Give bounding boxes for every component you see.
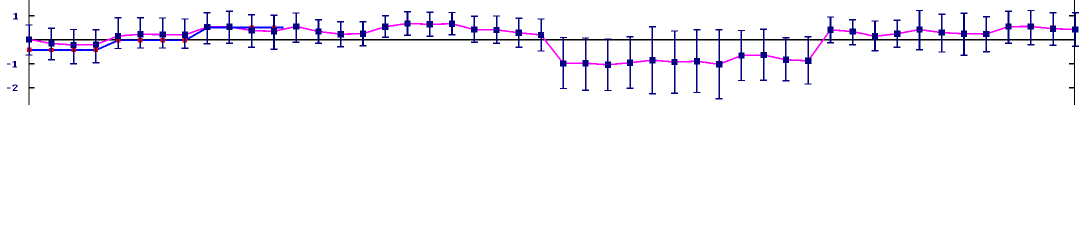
fit point 4 (red) (116, 38, 120, 42)
errorbar point 33 (760, 29, 767, 81)
errorbar point 13 (315, 19, 322, 44)
label -1 (7, 61, 17, 68)
errorbar point 28 (649, 26, 656, 95)
errorbar point 19 (449, 12, 456, 36)
errorbar point 47 (1072, 12, 1079, 47)
errorbar point 10 (248, 14, 255, 48)
fit point 7 (red) (183, 38, 187, 42)
errorbar point 14 (337, 21, 344, 47)
fit point 0 (red) (27, 48, 31, 52)
errorbar point 8 (204, 12, 211, 44)
x-axis zero line (28, 39, 1075, 40)
errorbar point 43 (983, 16, 990, 52)
errorbar point 39 (894, 20, 901, 49)
label -2 (7, 84, 17, 91)
errorbar point 27 (627, 36, 634, 89)
errorbar point 25 (582, 37, 589, 91)
errorbar point 34 (782, 37, 789, 81)
errorbar point 20 (471, 16, 478, 43)
errorbar point 5 (137, 17, 144, 49)
fit point 6 (red) (160, 38, 164, 42)
errorbar point 37 (849, 19, 856, 46)
errorbar point 35 (805, 36, 812, 85)
fit point 1 (red) (49, 48, 53, 52)
errorbar point 42 (961, 13, 968, 56)
errorbar point 24 (560, 37, 567, 89)
errorbar point 6 (159, 17, 166, 48)
fit line (blue) (29, 28, 284, 50)
fit point 2 (red) (71, 48, 75, 52)
errorbar point 23 (538, 18, 545, 51)
errorbar point 22 (515, 18, 522, 48)
errorbar point 29 (671, 30, 678, 94)
errorbar point 21 (493, 15, 500, 44)
errorbar point 46 (1050, 12, 1057, 46)
tick y=-2 left (29, 87, 35, 89)
tick y=-1 left (29, 63, 35, 65)
tick y=-2 right (1069, 87, 1075, 89)
errorbar point 26 (604, 38, 611, 91)
errorbar point 40 (916, 10, 923, 51)
fit point 10 (red) (250, 26, 254, 30)
errorbar point 36 (827, 16, 834, 43)
fit point 3 (red) (94, 48, 98, 52)
errorbar point 1 (48, 28, 55, 61)
errorbar point 17 (404, 11, 411, 36)
errorbar point 31 (716, 29, 723, 99)
tick y=-1 right (1069, 63, 1075, 65)
errorbar point 11 (270, 15, 277, 51)
errorbar point 7 (181, 18, 188, 49)
errorbar point 0 (26, 24, 33, 55)
right border (1074, 0, 1075, 105)
errorbar point 3 (92, 29, 99, 63)
errorbar point 44 (1005, 10, 1012, 43)
errorbar point 30 (693, 29, 700, 93)
errorbar point 18 (426, 12, 433, 37)
errorbar point 12 (293, 12, 300, 43)
errorbar point 16 (382, 15, 389, 38)
fit point 11 (red) (272, 26, 276, 30)
errorbar point 4 (115, 17, 122, 49)
errorbar point 45 (1027, 10, 1034, 46)
errorbar point 41 (938, 14, 945, 53)
errorbar point 2 (70, 29, 77, 65)
errorbar point 32 (738, 30, 745, 81)
fit point 8 (red) (205, 26, 209, 30)
errorbar point 9 (226, 10, 233, 44)
label 1 (13, 13, 18, 20)
fit point 9 (red) (227, 26, 231, 30)
errorbar point 15 (360, 21, 367, 46)
data series line (magenta) (29, 24, 1075, 65)
y-axis (left border) (28, 0, 29, 105)
fit point 5 (red) (138, 38, 142, 42)
tick y=1 left (29, 15, 35, 17)
errorbar point 38 (871, 20, 878, 51)
tick y=1 right (1069, 15, 1075, 17)
